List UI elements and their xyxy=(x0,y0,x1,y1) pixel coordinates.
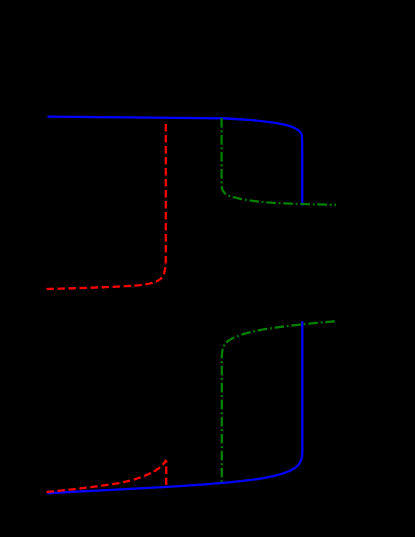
bottom panel: red dashed rising branch with fold jump down xyxy=(47,461,167,492)
top panel: green dash-dot jump and lower branch xyxy=(222,118,336,205)
top panel: red dashed lower branch with fold jump up xyxy=(47,123,166,289)
bottom panel: green dash-dot upper branch with fold drop xyxy=(222,321,335,482)
top panel: blue solid branch with fold drop xyxy=(48,117,303,206)
bottom panel: blue solid jump and lower branch xyxy=(48,321,303,493)
